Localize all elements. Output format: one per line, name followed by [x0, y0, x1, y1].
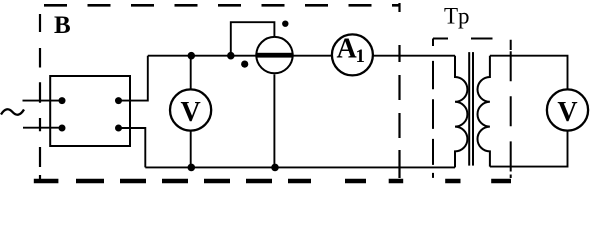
ammeter A1: [332, 34, 373, 76]
svg-text:Тр: Тр: [444, 3, 470, 28]
wire supply bottom: [23, 127, 62, 129]
node junction bottom bus / voltmeter: [188, 164, 196, 172]
regulator terminal dot lower-left: [241, 61, 248, 68]
wire voltmeter V bottom lead: [190, 131, 192, 167]
plug terminal bottom-right: [115, 125, 122, 132]
transformer core: [469, 52, 473, 166]
voltmeter V (secondary side): [547, 89, 588, 130]
dashed enclosure box B right edge: [398, 3, 400, 183]
plug terminal bottom-left: [59, 125, 66, 132]
voltmeter V (primary side): [170, 89, 211, 130]
wire plug top-right to main bus: [119, 56, 148, 101]
dashed enclosure bottom edge (under B and Tp boxes): [34, 179, 511, 184]
dashed transformer box Tp left edge: [432, 39, 434, 179]
plug connector box: [50, 76, 130, 146]
dashed enclosure box B top edge: [44, 4, 400, 7]
node junction top bus / bracket: [227, 52, 235, 60]
svg-text:V: V: [557, 97, 577, 128]
wire regulator top bracket: [231, 22, 275, 56]
wire supply top: [23, 100, 63, 102]
dashed enclosure box B left edge: [39, 14, 41, 180]
plug terminal top-right: [115, 97, 122, 104]
plug terminal top-left: [59, 97, 66, 104]
wire voltmeter V top lead: [190, 56, 192, 89]
transformer primary winding: [455, 56, 467, 168]
svg-text:1: 1: [356, 46, 366, 67]
svg-text:A: A: [337, 34, 358, 65]
regulator (circle with slider bar): [255, 37, 293, 73]
wire secondary bottom to voltmeter: [490, 131, 568, 167]
node junction bottom bus / regulator: [271, 164, 279, 172]
node junction top bus / voltmeter: [188, 52, 196, 60]
dashed transformer box Tp right edge: [510, 40, 512, 178]
wire plug bottom-right to bottom bus: [119, 128, 146, 167]
wire bottom bus: [145, 166, 455, 168]
regulator terminal dot upper-right: [282, 21, 288, 27]
transformer secondary winding: [478, 56, 490, 167]
AC source tilde: [1, 109, 24, 114]
svg-text:B: B: [54, 12, 71, 39]
wire main top bus: [148, 55, 455, 57]
dashed transformer box Tp top edge: [433, 38, 493, 40]
wire regulator bottom lead: [273, 74, 275, 167]
svg-text:V: V: [180, 97, 200, 128]
wire secondary top to voltmeter: [490, 56, 568, 89]
